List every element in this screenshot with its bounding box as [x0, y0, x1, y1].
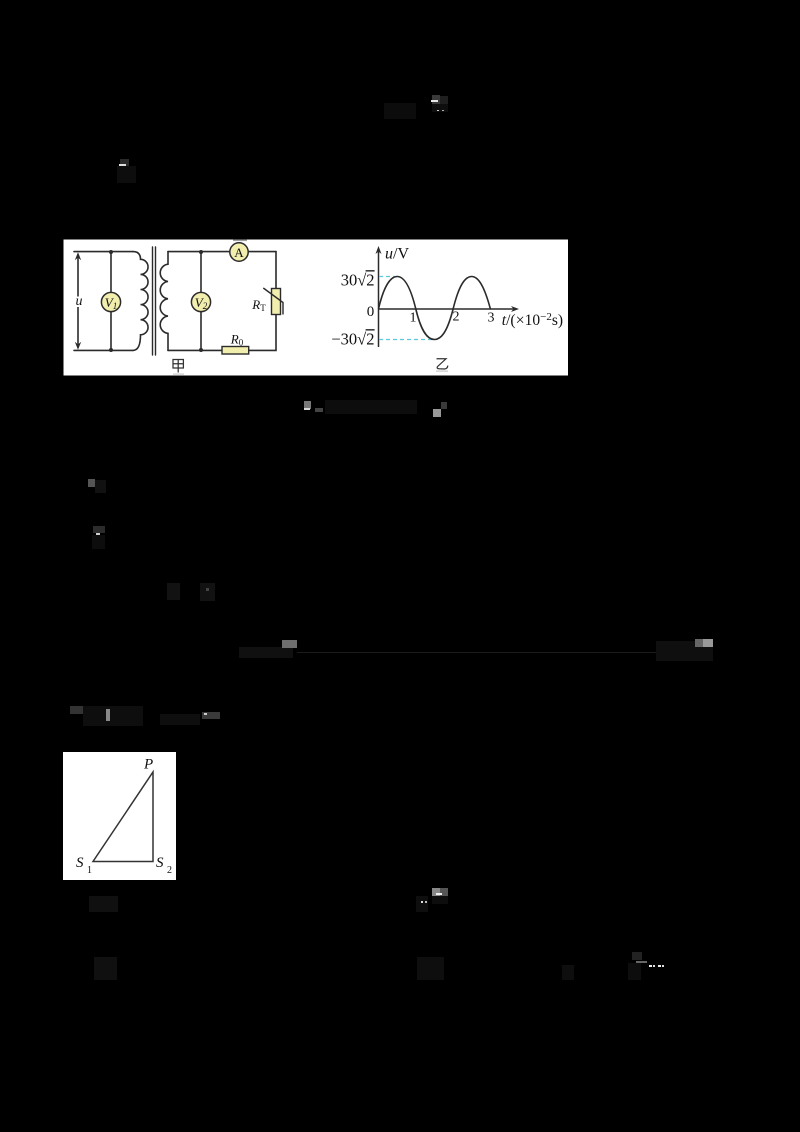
svg-text:u: u [76, 294, 83, 309]
wire V2 branch [200, 252, 202, 351]
wire primary bottom [74, 349, 133, 351]
faint marks y=583 [167, 583, 180, 600]
graph y-axis [376, 246, 520, 347]
sine wave [379, 277, 491, 340]
svg-text:0: 0 [367, 304, 375, 320]
svg-text:2: 2 [453, 310, 460, 325]
resistor R0 [222, 332, 249, 355]
wire secondary bottom [168, 349, 222, 351]
secondary coil [160, 252, 168, 351]
faint (1) [89, 896, 118, 912]
wire primary top [74, 251, 133, 253]
svg-text:3: 3 [488, 311, 495, 326]
svg-text:30√2: 30√2 [341, 271, 375, 290]
svg-text:−30√2: −30√2 [331, 330, 374, 349]
transformer core [152, 247, 154, 355]
node dot primary bottom [109, 348, 113, 352]
voltage arrow u [75, 252, 81, 350]
faint fraction sqrt3/3 [632, 952, 642, 960]
primary coil [133, 252, 148, 351]
svg-text:1: 1 [410, 311, 417, 326]
faint item (88,479) [88, 479, 95, 487]
faint fraction (93,527) [93, 526, 105, 533]
faint formula line u=30sqrt2... [304, 401, 311, 409]
figure 2: triangle P S1 S2 [63, 752, 176, 880]
yi underline [436, 371, 448, 372]
faint fraction I0 [120, 159, 129, 166]
wire secondary top [168, 251, 230, 253]
node dot secondary bottom [199, 348, 203, 352]
figure 1: circuit and graph [63, 238, 568, 376]
dashed level -30sqrt2 [379, 339, 434, 341]
ammeter A [230, 243, 248, 261]
wire V1 branch [110, 252, 112, 351]
smudge above ammeter [233, 240, 247, 242]
label yi (Chinese char drawn as path) [437, 359, 448, 369]
thermistor RT [251, 288, 283, 315]
wire A to right corner [248, 251, 276, 253]
jia underline [173, 374, 184, 375]
voltmeter V2 [191, 292, 210, 311]
svg-text:S: S [76, 855, 84, 871]
svg-text:2: 2 [167, 865, 172, 876]
faint formula patch U~ [432, 95, 440, 104]
voltmeter V1 [101, 292, 120, 311]
faint answer blank line [239, 647, 293, 658]
wire right vertical [249, 252, 276, 351]
triangle S1-S2-P [93, 772, 153, 862]
svg-text:P: P [143, 757, 153, 773]
svg-text:S: S [156, 855, 164, 871]
label jia (Chinese char drawn as path) [173, 360, 183, 373]
graph x-axis [379, 308, 517, 310]
faint marks y=957 [417, 957, 444, 980]
svg-text:A: A [234, 245, 244, 260]
svg-text:u/V: u/V [385, 246, 409, 263]
dashed level +30sqrt2 [379, 276, 397, 278]
faint (2) [94, 957, 117, 980]
figure background [64, 240, 569, 376]
svg-text:1: 1 [87, 865, 92, 876]
faint formula tan [416, 896, 428, 912]
node dot primary top [109, 250, 113, 254]
svg-text:t/(×10−2s): t/(×10−2s) [502, 311, 563, 329]
faint P formula line y=706 [70, 706, 83, 714]
node dot secondary top [199, 250, 203, 254]
faint formula line 1 (dark) [384, 103, 416, 119]
